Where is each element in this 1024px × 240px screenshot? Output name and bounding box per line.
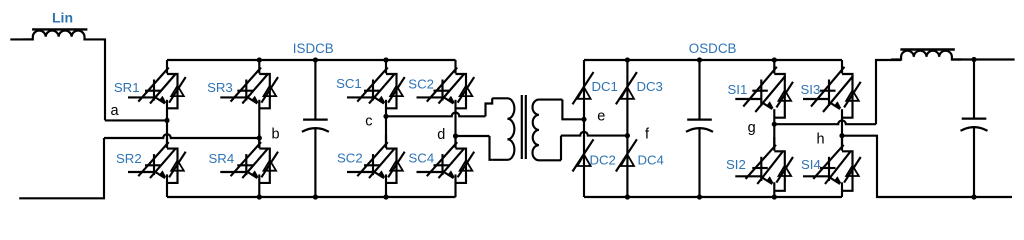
wire SC leg1 mid	[385, 116, 387, 148]
wire node b with hop over leg1	[104, 134, 259, 138]
svg-text:d: d	[437, 127, 445, 143]
node output- cap	[971, 194, 976, 199]
transformer primary winding	[492, 98, 514, 160]
wire node h down to output-	[842, 136, 1012, 197]
diode DC2	[573, 139, 594, 171]
wire leg2 mid	[258, 138, 260, 148]
wire node g to output	[774, 120, 876, 124]
wire DC leg2	[626, 60, 628, 197]
capacitor output	[973, 59, 975, 119]
svg-text:SC2: SC2	[408, 76, 434, 91]
wire node d to primary	[456, 135, 490, 137]
wire secondary bottom jog	[560, 136, 562, 161]
svg-text:DC2: DC2	[590, 152, 616, 167]
transistor SC4	[417, 135, 475, 197]
svg-text:SI2: SI2	[726, 157, 746, 172]
node f junction	[625, 133, 630, 138]
wire leg1 mid	[166, 120, 168, 148]
transistor SR3	[220, 60, 278, 138]
wire output+	[952, 58, 1015, 60]
wire node c to primary	[386, 113, 486, 117]
transistor SC2 bottom	[347, 135, 405, 197]
wire SI leg1 mid	[773, 124, 775, 148]
wire SI leg2 mid	[841, 136, 843, 148]
transistor SR2	[128, 135, 186, 197]
transformer secondary winding	[533, 100, 563, 161]
wire secondary top to node e	[562, 100, 584, 120]
transistor SI2	[735, 137, 793, 197]
svg-text:c: c	[365, 113, 372, 129]
wire input+ down to node a	[94, 39, 105, 120]
svg-text:SR1: SR1	[114, 80, 140, 95]
wire SC leg2 mid	[454, 136, 456, 148]
node botrail-SR leg2	[257, 194, 262, 199]
svg-text:g: g	[748, 120, 756, 136]
node output+ cap	[971, 57, 976, 62]
svg-text:SC2: SC2	[337, 151, 363, 166]
svg-text:SC1: SC1	[336, 76, 362, 91]
inductor Lout	[891, 51, 962, 60]
transformer core	[521, 95, 523, 159]
svg-text:e: e	[597, 108, 605, 124]
svg-text:SC4: SC4	[409, 151, 435, 166]
transistor SR1	[128, 60, 186, 120]
wire DC leg1	[583, 60, 585, 197]
diode DC4	[616, 139, 637, 171]
svg-text:SI1: SI1	[728, 82, 748, 97]
svg-text:SR4: SR4	[209, 151, 235, 166]
node a junction	[164, 118, 169, 123]
node e junction	[581, 117, 586, 122]
node botrail-SC leg1	[383, 194, 388, 199]
node botrail-OSDCB	[697, 194, 702, 199]
node rail-SI leg1	[772, 57, 777, 62]
node h junction	[839, 133, 844, 138]
node botrail-SI leg1	[772, 194, 777, 199]
wire primary bottom jog	[490, 136, 493, 160]
diode DC1	[573, 72, 594, 104]
node g junction	[772, 122, 777, 127]
wire right bottom rail	[584, 196, 842, 198]
svg-text:SR2: SR2	[116, 151, 142, 166]
transistor SR4	[220, 135, 278, 197]
node c junction	[383, 114, 388, 119]
transistor SI4	[803, 137, 861, 197]
transistor SI3	[803, 60, 861, 136]
node botrail-DC leg2	[625, 194, 630, 199]
node rail-ISDCB	[313, 57, 318, 62]
node b junction	[257, 135, 262, 140]
wire input- up	[19, 138, 104, 198]
inductor Lin	[23, 31, 95, 40]
node rail-DC leg2	[625, 57, 630, 62]
svg-text:SR3: SR3	[207, 80, 233, 95]
svg-text:a: a	[111, 103, 120, 119]
wire left bottom rail	[167, 196, 456, 198]
svg-text:DC4: DC4	[638, 152, 664, 167]
svg-text:h: h	[817, 132, 825, 148]
transistor SC1	[347, 60, 405, 116]
node rail-SC leg1	[383, 57, 388, 62]
node rail-OSDCB	[697, 57, 702, 62]
svg-text:ISDCB: ISDCB	[293, 41, 334, 56]
node d junction	[453, 133, 458, 138]
capacitor ISDCB	[314, 60, 316, 120]
svg-text:OSDCB: OSDCB	[689, 41, 737, 56]
wire primary top jog	[486, 98, 493, 116]
transistor SI1	[735, 60, 793, 124]
transistor SC2 top	[417, 60, 475, 136]
svg-text:DC3: DC3	[637, 79, 663, 94]
node rail-SR leg2	[257, 57, 262, 62]
capacitor OSDCB	[698, 60, 700, 120]
svg-text:SI4: SI4	[801, 157, 821, 172]
wire input+ lead	[10, 38, 33, 40]
svg-text:b: b	[272, 126, 280, 142]
wire left top rail	[167, 59, 456, 61]
wire node f with hop	[561, 132, 627, 136]
wire node a	[105, 119, 167, 121]
svg-text:SI3: SI3	[801, 82, 821, 97]
diode DC3	[616, 72, 637, 104]
node botrail-ISDCB	[313, 194, 318, 199]
wire g up to inductor	[876, 60, 901, 124]
svg-text:DC1: DC1	[592, 79, 618, 94]
svg-text:Lin: Lin	[52, 10, 73, 26]
wire right top rail	[584, 59, 842, 61]
